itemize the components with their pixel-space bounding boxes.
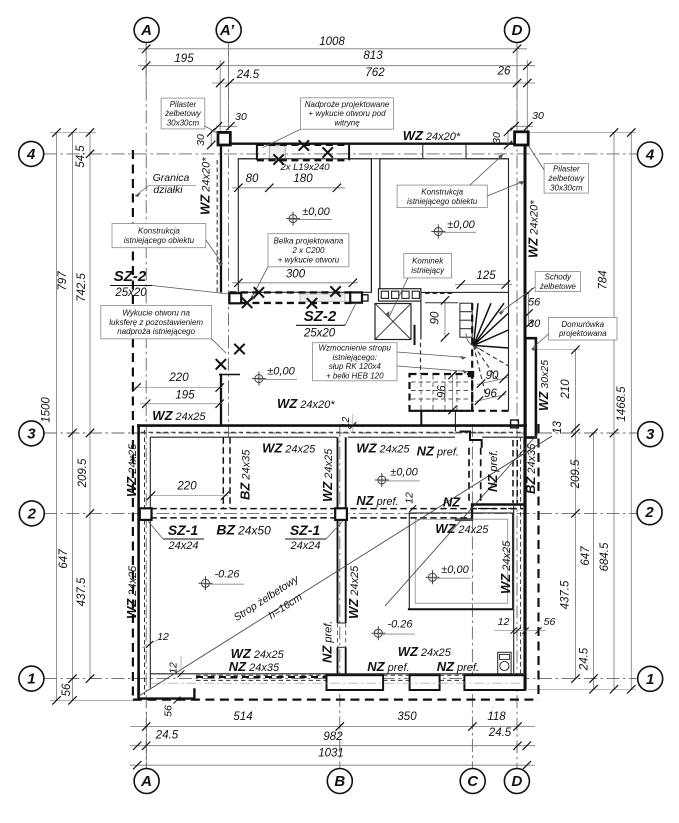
svg-text:NZ24x35: NZ24x35 bbox=[229, 659, 280, 674]
svg-text:437.5: 437.5 bbox=[76, 577, 88, 606]
svg-text:NZpref.: NZpref. bbox=[485, 450, 500, 492]
svg-text:Domurówka: Domurówka bbox=[561, 320, 604, 329]
svg-text:WZ24x25: WZ24x25 bbox=[152, 408, 206, 423]
svg-text:WZ24x20*: WZ24x20* bbox=[198, 157, 213, 215]
svg-text:56: 56 bbox=[528, 297, 541, 309]
svg-text:784: 784 bbox=[598, 270, 610, 289]
X marks luksfery bbox=[216, 359, 226, 369]
svg-text:D: D bbox=[512, 22, 523, 39]
svg-text:647: 647 bbox=[58, 549, 70, 569]
svg-text:56: 56 bbox=[61, 683, 73, 696]
svg-text:1500: 1500 bbox=[41, 397, 53, 423]
svg-text:WZ24x25: WZ24x25 bbox=[435, 521, 489, 536]
svg-text:210: 210 bbox=[560, 379, 572, 400]
svg-text:projektowana: projektowana bbox=[558, 329, 607, 338]
svg-text:2x L19x240: 2x L19x240 bbox=[279, 162, 330, 173]
svg-text:220: 220 bbox=[168, 372, 189, 384]
svg-text:24.5: 24.5 bbox=[155, 730, 179, 742]
svg-text:±0,00: ±0,00 bbox=[390, 467, 418, 479]
svg-text:istniejący: istniejący bbox=[411, 266, 445, 275]
svg-text:2 x C200: 2 x C200 bbox=[291, 246, 325, 255]
svg-text:BZ24x50: BZ24x50 bbox=[216, 522, 271, 538]
svg-text:+ belki HEB 120: + belki HEB 120 bbox=[326, 372, 384, 381]
svg-text:WZ24x20*: WZ24x20* bbox=[526, 200, 541, 258]
svg-text:Kominek: Kominek bbox=[412, 257, 444, 266]
svg-text:istniejącego obiektu: istniejącego obiektu bbox=[124, 236, 195, 245]
svg-text:647: 647 bbox=[580, 546, 592, 566]
svg-text:Wykucie otworu na: Wykucie otworu na bbox=[122, 308, 190, 317]
svg-text:WZ24x25: WZ24x25 bbox=[262, 441, 316, 456]
svg-text:WZ24x20*: WZ24x20* bbox=[277, 396, 335, 411]
svg-text:982: 982 bbox=[323, 731, 343, 743]
svg-text:195: 195 bbox=[174, 53, 194, 65]
svg-text:24.5: 24.5 bbox=[579, 647, 591, 671]
svg-text:25x20: 25x20 bbox=[114, 287, 147, 299]
svg-text:Konstrukcja: Konstrukcja bbox=[138, 227, 180, 236]
dim 90 vertical at stairs bbox=[430, 296, 450, 341]
svg-text:684.5: 684.5 bbox=[599, 542, 611, 571]
svg-text:56: 56 bbox=[163, 705, 175, 717]
svg-text:-0.26: -0.26 bbox=[387, 619, 413, 631]
svg-text:B: B bbox=[334, 773, 345, 790]
svg-text:istniejącego:: istniejącego: bbox=[333, 353, 377, 362]
Belka projektowana box bbox=[268, 234, 349, 267]
svg-text:1: 1 bbox=[646, 671, 654, 688]
svg-text:24x24: 24x24 bbox=[290, 540, 321, 552]
svg-text:1008: 1008 bbox=[319, 36, 345, 48]
svg-text:12: 12 bbox=[168, 662, 180, 674]
svg-text:742.5: 742.5 bbox=[76, 273, 88, 302]
svg-text:1: 1 bbox=[27, 671, 35, 688]
svg-text:13: 13 bbox=[552, 421, 564, 434]
svg-text:SZ-1: SZ-1 bbox=[168, 522, 199, 538]
svg-text:±0,00: ±0,00 bbox=[447, 219, 475, 231]
svg-text:NZpref.: NZpref. bbox=[320, 621, 335, 663]
svg-text:istniejącego obiektu: istniejącego obiektu bbox=[407, 197, 478, 206]
svg-text:437.5: 437.5 bbox=[560, 580, 572, 609]
svg-text:Pilaster: Pilaster bbox=[553, 165, 580, 174]
svg-text:WZ24x25: WZ24x25 bbox=[320, 448, 335, 502]
svg-text:WZ24x25: WZ24x25 bbox=[398, 644, 452, 659]
svg-text:54.5: 54.5 bbox=[75, 145, 87, 168]
svg-text:Konstrukcja: Konstrukcja bbox=[421, 187, 463, 196]
svg-text:125: 125 bbox=[476, 270, 496, 282]
svg-text:SZ-2: SZ-2 bbox=[304, 308, 337, 325]
svg-text:C: C bbox=[467, 773, 479, 790]
svg-text:Nadproże projektowane: Nadproże projektowane bbox=[305, 100, 390, 109]
svg-text:30x30cm: 30x30cm bbox=[550, 183, 583, 192]
dims 90 / 96 in winder bbox=[437, 370, 509, 414]
svg-text:118: 118 bbox=[487, 711, 506, 723]
svg-text:Pilaster: Pilaster bbox=[170, 100, 197, 109]
svg-text:12: 12 bbox=[340, 417, 352, 429]
svg-text:NZpref.: NZpref. bbox=[417, 444, 459, 459]
svg-text:12: 12 bbox=[498, 616, 510, 628]
svg-text:220: 220 bbox=[176, 481, 197, 493]
svg-text:±0,00: ±0,00 bbox=[302, 206, 330, 218]
svg-text:A’: A’ bbox=[219, 22, 235, 39]
svg-text:żelbetowy: żelbetowy bbox=[548, 174, 586, 183]
svg-text:195: 195 bbox=[175, 390, 195, 402]
svg-text:30: 30 bbox=[195, 134, 207, 146]
svg-text:30: 30 bbox=[528, 318, 541, 330]
svg-text:3: 3 bbox=[646, 426, 655, 443]
svg-text:A: A bbox=[140, 22, 152, 39]
svg-text:WZ24x25: WZ24x25 bbox=[124, 565, 139, 619]
svg-text:A: A bbox=[140, 773, 152, 790]
svg-text:NZpref.: NZpref. bbox=[356, 493, 398, 508]
svg-text:WZ24x25: WZ24x25 bbox=[124, 443, 139, 497]
svg-text:-0.26: -0.26 bbox=[214, 569, 240, 581]
svg-text:180: 180 bbox=[293, 173, 313, 185]
svg-text:+ wykucie otworu pod: + wykucie otworu pod bbox=[308, 109, 386, 118]
svg-text:24x24: 24x24 bbox=[168, 540, 199, 552]
svg-text:WZ30x25: WZ30x25 bbox=[537, 360, 551, 411]
svg-text:Belka projektowana: Belka projektowana bbox=[274, 237, 344, 246]
svg-text:30: 30 bbox=[532, 110, 544, 122]
svg-text:26: 26 bbox=[497, 66, 511, 78]
label SZ-2 left bbox=[110, 268, 229, 299]
svg-text:24.5: 24.5 bbox=[488, 727, 512, 739]
svg-text:24.5: 24.5 bbox=[236, 69, 260, 81]
svg-text:NZ: NZ bbox=[443, 495, 461, 510]
svg-text:797: 797 bbox=[57, 271, 69, 291]
svg-text:3: 3 bbox=[27, 425, 36, 442]
svg-text:1468.5: 1468.5 bbox=[616, 386, 628, 422]
svg-text:WZ24x20*: WZ24x20* bbox=[403, 128, 461, 143]
svg-text:słup RK 120x4: słup RK 120x4 bbox=[329, 362, 382, 371]
svg-text:BZ24x35: BZ24x35 bbox=[238, 449, 253, 500]
svg-text:nadproża istniejącego: nadproża istniejącego bbox=[117, 327, 195, 336]
svg-text:30: 30 bbox=[491, 132, 503, 144]
svg-text:WZ24x25: WZ24x25 bbox=[346, 565, 361, 619]
svg-text:1031: 1031 bbox=[318, 748, 344, 760]
svg-text:D: D bbox=[511, 773, 522, 790]
svg-text:514: 514 bbox=[233, 711, 252, 723]
svg-text:209.5: 209.5 bbox=[570, 459, 582, 489]
svg-text:Schody: Schody bbox=[545, 273, 573, 282]
svg-text:12: 12 bbox=[157, 631, 169, 643]
svg-text:Granica: Granica bbox=[153, 172, 190, 184]
svg-text:WZ24x25: WZ24x25 bbox=[498, 540, 513, 594]
svg-text:SZ-1: SZ-1 bbox=[290, 522, 321, 538]
svg-text:96: 96 bbox=[437, 385, 449, 398]
svg-text:813: 813 bbox=[363, 50, 383, 62]
svg-text:SZ-2: SZ-2 bbox=[114, 268, 147, 285]
svg-text:30x30cm: 30x30cm bbox=[167, 119, 200, 128]
svg-text:30: 30 bbox=[235, 111, 247, 123]
svg-text:350: 350 bbox=[397, 711, 417, 723]
svg-text:NZpref.: NZpref. bbox=[367, 659, 409, 674]
svg-text:56: 56 bbox=[544, 616, 556, 628]
svg-text:witrynę: witrynę bbox=[334, 119, 360, 128]
svg-text:2: 2 bbox=[644, 504, 654, 521]
svg-text:12: 12 bbox=[404, 492, 416, 504]
svg-text:2: 2 bbox=[27, 505, 37, 522]
svg-text:±0,00: ±0,00 bbox=[441, 564, 469, 576]
svg-text:80: 80 bbox=[246, 173, 259, 185]
svg-text:żelbetowy: żelbetowy bbox=[164, 109, 202, 118]
svg-text:luksferę z pozostawieniem: luksferę z pozostawieniem bbox=[109, 318, 203, 327]
svg-text:BZ24x35: BZ24x35 bbox=[523, 443, 538, 494]
svg-text:90: 90 bbox=[430, 311, 442, 324]
svg-text:WZ24x25: WZ24x25 bbox=[356, 441, 410, 456]
svg-text:300: 300 bbox=[286, 269, 306, 281]
label SZ-2 right bbox=[296, 303, 356, 340]
svg-text:żelbetowe: żelbetowe bbox=[539, 282, 577, 291]
svg-text:±0,00: ±0,00 bbox=[267, 366, 295, 378]
svg-text:209.5: 209.5 bbox=[77, 458, 89, 488]
svg-text:Wzmocnienie stropu: Wzmocnienie stropu bbox=[319, 343, 392, 352]
svg-text:762: 762 bbox=[365, 67, 385, 79]
svg-text:+ wykucie otworu: + wykucie otworu bbox=[278, 255, 340, 264]
svg-text:4: 4 bbox=[26, 146, 36, 163]
svg-text:NZpref.: NZpref. bbox=[437, 659, 479, 674]
svg-text:4: 4 bbox=[645, 147, 655, 164]
svg-text:25x20: 25x20 bbox=[303, 328, 336, 340]
